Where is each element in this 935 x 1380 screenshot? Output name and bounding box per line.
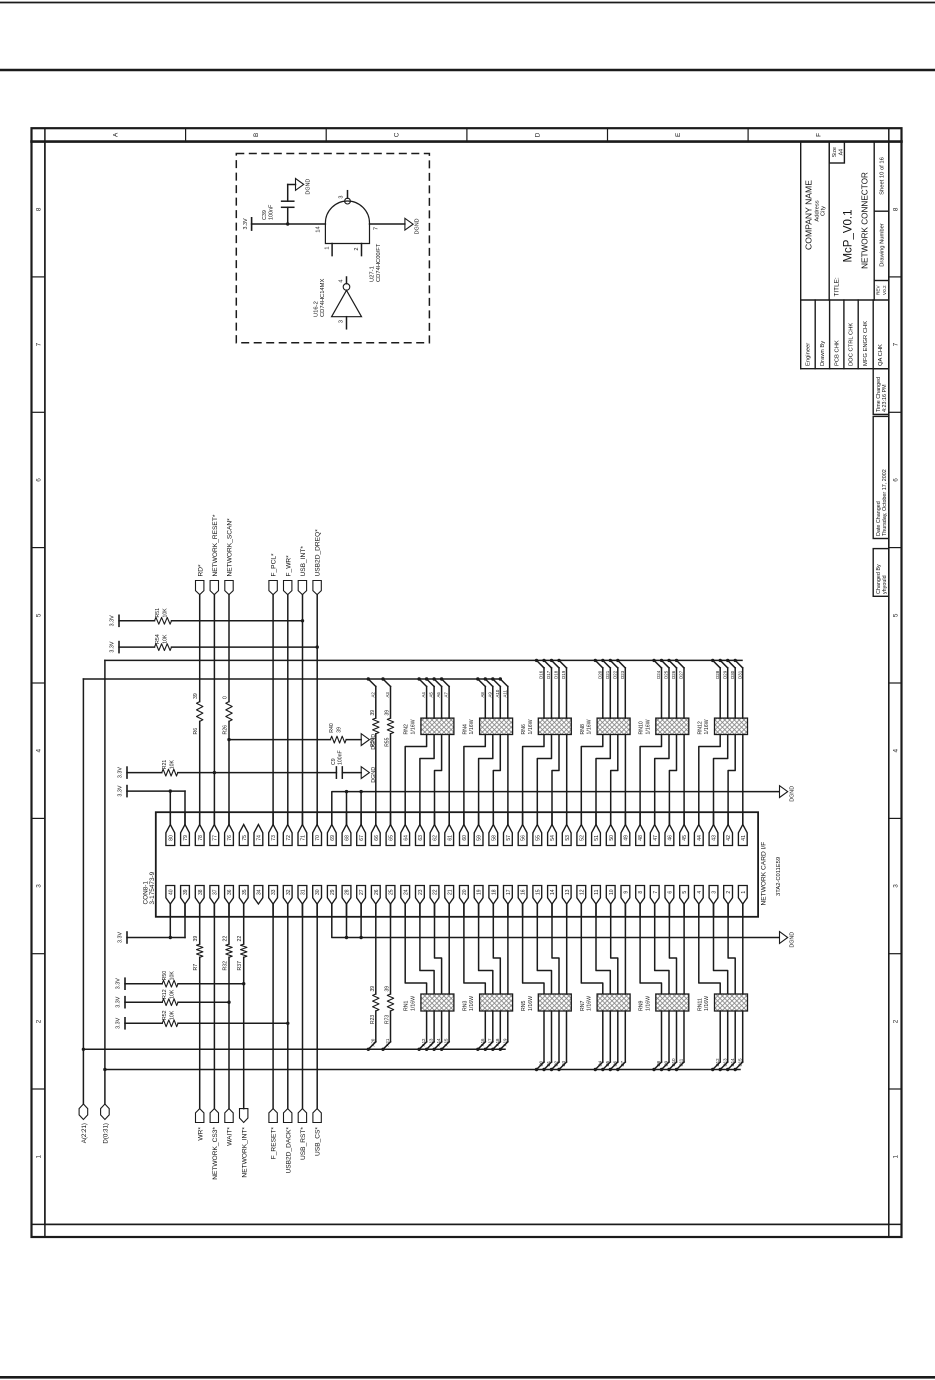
wire RN11 to bus tap D12 [719, 1011, 721, 1062]
wire RN7 to bus tap D6 [617, 1011, 619, 1062]
pin 52 [577, 825, 586, 846]
svg-text:64: 64 [403, 835, 409, 841]
wire bus tap D23 to RN8 [618, 660, 626, 668]
svg-text:C: C [394, 132, 401, 137]
frame strip right vertical extended [888, 128, 890, 1237]
wire RN7 input 1 from pin 12 [581, 904, 603, 994]
svg-text:19: 19 [477, 889, 483, 895]
wire RN3 input 2 from pin 19 [479, 904, 493, 994]
svg-text:RD*: RD* [197, 564, 204, 577]
ground DGND for U27 [405, 218, 413, 230]
ground DGND for C9 [361, 767, 369, 779]
svg-text:1/16W: 1/16W [587, 996, 593, 1011]
pin 35 [239, 886, 248, 905]
svg-text:54: 54 [550, 835, 556, 841]
svg-text:3.3V: 3.3V [115, 978, 121, 989]
svg-text:11: 11 [594, 889, 600, 894]
3.3V power symbol in dashed box [251, 218, 253, 230]
pin 30 [313, 886, 322, 905]
date changed box [873, 416, 889, 538]
svg-text:D3: D3 [561, 1060, 566, 1066]
pin 46 [665, 825, 674, 846]
wire WAIT* with resistor R32 [228, 957, 230, 1108]
svg-text:7: 7 [653, 891, 659, 894]
svg-text:3-175473-9: 3-175473-9 [149, 871, 156, 904]
svg-text:34: 34 [257, 889, 263, 895]
svg-text:D25: D25 [664, 670, 669, 679]
time changed box [873, 369, 889, 415]
svg-text:C9: C9 [331, 758, 337, 765]
resistor R37 [241, 944, 247, 957]
svg-text:A12: A12 [421, 1038, 426, 1046]
pin 32 [283, 886, 292, 905]
junction D6 [609, 1068, 612, 1071]
wire RN10 output 3 to pin 46 [669, 735, 676, 825]
pin 62 [430, 825, 439, 846]
junction R12 to WAIT [227, 1001, 230, 1004]
wire USB2D_DACK* to pin 32 [287, 904, 289, 1109]
bus D(0:31) upper horizontal [105, 659, 742, 661]
title block main dividing lines [801, 142, 889, 369]
pin 73 [269, 825, 278, 846]
svg-text:USB2D_DREQ*: USB2D_DREQ* [315, 529, 322, 577]
svg-text:58: 58 [491, 835, 497, 841]
svg-text:23: 23 [418, 889, 424, 895]
svg-text:5: 5 [892, 613, 899, 617]
resistor R12 with 3.3V [124, 997, 126, 1008]
wire RD* with resistor R6 [199, 595, 201, 702]
pin 25 [386, 886, 395, 905]
pin 66 [371, 825, 380, 846]
pin 10 [606, 886, 615, 905]
signal flag USB2D_DACK* [284, 1109, 292, 1123]
wire RN1 input 1 from pin 24 [405, 904, 426, 994]
pin 36 [225, 886, 234, 905]
resistor network RN7 [597, 994, 630, 1011]
pin 4 [694, 886, 703, 905]
junction D10 [667, 1068, 670, 1071]
svg-text:62: 62 [433, 835, 439, 841]
bus flag A(2:21) [79, 1104, 88, 1120]
svg-text:PCB CHK: PCB CHK [834, 340, 840, 366]
pin 72 [283, 825, 292, 846]
svg-text:DGND: DGND [789, 932, 795, 948]
wire U27 pin 7 to ground [370, 223, 405, 225]
svg-text:DGND: DGND [415, 218, 421, 234]
pin 74 [254, 825, 263, 846]
junction A10 [491, 677, 494, 680]
svg-text:D7: D7 [620, 1060, 625, 1066]
svg-text:COMPANY NAME: COMPANY NAME [803, 180, 813, 250]
resistor R21 with 3.3V [126, 767, 128, 778]
pin 26 [371, 886, 380, 905]
pin 7 [650, 886, 659, 905]
svg-text:3.3V: 3.3V [117, 767, 123, 778]
wire RN5 input 1 from pin 16 [523, 904, 544, 994]
ground DGND bottom rail [780, 932, 788, 944]
junction A14 [432, 1048, 435, 1051]
resistor R40 to ground [229, 739, 330, 741]
pin 70 [313, 825, 322, 846]
wire RN10 output 4 to pin 45 [683, 735, 685, 825]
svg-text:8: 8 [892, 207, 899, 211]
svg-text:A21: A21 [385, 1038, 390, 1046]
svg-text:8: 8 [35, 207, 42, 211]
wire RN8 output 4 to pin 49 [624, 735, 626, 825]
wire NETWORK_RESET* to pin 77 [213, 595, 215, 825]
svg-text:63: 63 [418, 835, 424, 841]
pin 15 [533, 886, 542, 905]
junction D26 [667, 659, 670, 662]
column tick marks top strip [186, 128, 749, 141]
ground rail bottom [332, 904, 780, 938]
pin 79 [181, 825, 190, 846]
svg-text:A15: A15 [444, 1038, 449, 1046]
svg-text:D2: D2 [554, 1060, 559, 1066]
svg-text:75: 75 [242, 835, 248, 841]
bus D(0:31) lower horizontal [105, 1069, 740, 1071]
wire bus tap D20 to RN8 [595, 660, 603, 668]
wire RN2 output 4 to pin 61 [448, 735, 450, 825]
svg-text:6: 6 [892, 478, 899, 482]
svg-text:4: 4 [35, 748, 42, 752]
svg-text:A7: A7 [444, 692, 449, 698]
junction A8 [476, 677, 479, 680]
svg-text:Date Changed: Date Changed [876, 501, 882, 536]
svg-text:Thursday, October 17, 2002: Thursday, October 17, 2002 [882, 469, 888, 536]
pin 17 [504, 886, 513, 905]
wire RN6 output 1 to pin 56 [523, 735, 544, 825]
pin 14 [548, 886, 557, 905]
svg-text:3.3V: 3.3V [109, 641, 115, 652]
svg-text:R59: R59 [370, 737, 376, 746]
signal flag F_WR* [284, 581, 292, 595]
row tick marks right strip [889, 277, 902, 1089]
pin 12 [577, 886, 586, 905]
op-amp U27-1 NAND gate body [325, 201, 369, 244]
pin 67 [357, 825, 366, 846]
svg-text:B: B [253, 133, 260, 137]
resistor R73 [387, 994, 393, 1011]
svg-text:R7: R7 [193, 964, 199, 971]
resistor R55 [387, 718, 393, 734]
svg-text:D10: D10 [671, 1058, 676, 1067]
svg-text:4:23:16 PM: 4:23:16 PM [882, 384, 888, 412]
svg-text:27: 27 [359, 889, 365, 895]
U16-2 output stub pin 4 [346, 277, 348, 284]
wire USB_RST* to pin 31 [302, 904, 304, 1109]
ground DGND for C39 [296, 179, 304, 191]
junction D9 [660, 1068, 663, 1071]
pin 59 [474, 825, 483, 846]
wire RN12 output 3 to pin 42 [728, 735, 735, 825]
svg-text:12: 12 [579, 889, 585, 895]
row numbers 8-1 right strip [892, 207, 899, 1158]
svg-text:D: D [534, 132, 541, 137]
svg-text:USB_CS*: USB_CS* [315, 1127, 322, 1156]
junction D11 [675, 1068, 678, 1071]
svg-text:6: 6 [668, 891, 674, 894]
resistor R59 [373, 718, 379, 734]
svg-text:Drawing Number: Drawing Number [880, 223, 886, 267]
junction R54 to USB2D_DREQ [316, 645, 319, 648]
pin 31 [298, 886, 307, 905]
svg-text:R73: R73 [385, 1015, 391, 1024]
svg-text:RN8: RN8 [580, 724, 586, 734]
wire RN12 output 1 to pin 44 [699, 735, 720, 825]
svg-text:D30: D30 [730, 670, 735, 679]
junction D3 [557, 1068, 560, 1071]
wire bus tap A5 to RN2 [427, 679, 435, 687]
svg-text:80: 80 [168, 835, 174, 841]
junction A7 [440, 677, 443, 680]
svg-text:3: 3 [35, 884, 42, 888]
svg-text:4: 4 [892, 748, 899, 752]
resistor network RN6 [538, 718, 571, 734]
junction A11 [499, 677, 502, 680]
wire RN7 to bus tap D7 [624, 1011, 626, 1062]
svg-text:1/16W: 1/16W [469, 719, 475, 734]
wire bus tap D27 to RN10 [677, 660, 685, 668]
wire RN6 output 4 to pin 53 [566, 735, 568, 825]
svg-text:A(2:21): A(2:21) [81, 1123, 88, 1143]
signal flag F_PCL* [269, 581, 277, 595]
svg-text:A6: A6 [436, 692, 441, 698]
wire RN9 to bus tap D10 [676, 1011, 678, 1062]
svg-text:5: 5 [682, 891, 688, 894]
pin 55 [533, 825, 542, 846]
wire RN7 input 3 from pin 10 [611, 904, 618, 994]
signal flag USB2D_DREQ* [313, 581, 321, 595]
svg-text:Engineer: Engineer [805, 343, 811, 366]
wire F_PCL* to pin 73 [272, 595, 274, 825]
wire bus tap A7 to RN2 [442, 679, 450, 687]
wire RN10 output 1 to pin 48 [640, 735, 661, 825]
svg-text:67: 67 [359, 835, 365, 841]
svg-text:D20: D20 [597, 670, 602, 679]
junction D bus lower [103, 1068, 106, 1071]
U27-1 input stub pin 1 [331, 244, 333, 256]
wire RN8 output 1 to pin 52 [581, 735, 603, 825]
svg-text:D23: D23 [620, 670, 625, 679]
svg-text:CD74HC14MX: CD74HC14MX [320, 279, 326, 317]
resistor network RN11 [715, 994, 748, 1011]
signal flag NETWORK_INT* [240, 1109, 248, 1123]
junction 3.3V pin 40 [169, 936, 172, 939]
svg-text:DGND: DGND [789, 786, 795, 802]
wire RN8 output 2 to pin 51 [596, 735, 610, 825]
pin 76 [225, 825, 234, 846]
junction D2 [550, 1068, 553, 1071]
wire RN2 output 2 to pin 63 [420, 735, 434, 825]
junction D13 [719, 1068, 722, 1071]
svg-text:29: 29 [330, 889, 336, 895]
wire bus tap D19 to RN6 [559, 660, 567, 668]
pin 57 [504, 825, 513, 846]
svg-text:1/16W: 1/16W [587, 719, 593, 734]
svg-text:F_PCL*: F_PCL* [271, 553, 278, 577]
resistor R6 [197, 702, 203, 722]
junction D4 [594, 1068, 597, 1071]
svg-text:Size: Size [832, 147, 838, 157]
svg-text:52: 52 [579, 835, 585, 841]
pin 43 [709, 825, 718, 846]
svg-text:3.3V: 3.3V [115, 996, 121, 1007]
resistor network RN3 [480, 994, 513, 1011]
wire RN10 output 2 to pin 47 [655, 735, 669, 825]
wire bus tap D24 to RN10 [654, 660, 662, 668]
svg-text:R37: R37 [237, 961, 243, 971]
wire RN9 input 1 from pin 8 [640, 904, 661, 994]
title block size box [829, 142, 844, 163]
pin 39 [181, 886, 190, 905]
svg-text:McP_V0.1: McP_V0.1 [842, 209, 854, 262]
wire RN1 to bus tap A13 [433, 1011, 435, 1042]
pin 18 [489, 886, 498, 905]
junction D31 [734, 659, 737, 662]
wire RN3 to bus tap A16 [484, 1011, 486, 1042]
svg-text:10K: 10K [169, 989, 175, 999]
svg-text:1/16W: 1/16W [528, 996, 534, 1011]
svg-text:68: 68 [345, 835, 351, 841]
junction A12 [417, 1048, 420, 1051]
wire bus tap D21 to RN8 [603, 660, 611, 668]
svg-text:D8: D8 [656, 1060, 661, 1066]
signal flag F_RESET* [269, 1109, 277, 1123]
svg-text:65: 65 [389, 835, 395, 841]
svg-text:6: 6 [35, 478, 42, 482]
svg-text:2: 2 [354, 247, 360, 250]
junction A4 [417, 677, 420, 680]
wire RN2 output 3 to pin 62 [435, 735, 442, 825]
junction D14 [726, 1068, 729, 1071]
svg-text:D31: D31 [737, 670, 742, 679]
pin 77 [210, 825, 219, 846]
wire bus tap D16 to RN6 [537, 660, 545, 668]
ground DGND top rail [780, 786, 788, 798]
svg-text:15: 15 [535, 889, 541, 895]
junction A20 tap [367, 1048, 370, 1051]
svg-text:38: 38 [198, 889, 204, 895]
pin 58 [489, 825, 498, 846]
svg-text:RN4: RN4 [462, 724, 468, 734]
svg-text:55: 55 [535, 835, 541, 841]
resistor network RN9 [656, 994, 689, 1011]
junction ground pin 28 [345, 936, 348, 939]
svg-text:25: 25 [389, 889, 395, 895]
svg-text:14: 14 [315, 226, 321, 232]
svg-text:51: 51 [594, 835, 600, 841]
svg-text:Drawn By: Drawn By [820, 341, 826, 366]
pin 64 [401, 825, 410, 846]
column letters A-F top strip [112, 132, 822, 137]
junction D27 [675, 659, 678, 662]
resistor R51 with 3.3V [118, 615, 120, 626]
row tick marks left strip [32, 277, 45, 1089]
pin 20 [460, 886, 469, 905]
svg-text:18: 18 [491, 889, 497, 895]
svg-text:35: 35 [242, 889, 248, 895]
svg-text:47: 47 [653, 835, 659, 841]
svg-text:A: A [112, 132, 119, 137]
wire F_RESET* to pin 33 [272, 904, 274, 1109]
svg-text:A2: A2 [370, 692, 375, 698]
frame inner top thick line [32, 140, 902, 143]
wire RN12 output 4 to pin 41 [742, 735, 744, 825]
svg-text:Time Changed: Time Changed [876, 377, 882, 412]
junction D23 [616, 659, 619, 662]
svg-text:A4: A4 [421, 692, 426, 698]
wire RN11 input 2 from pin 3 [714, 904, 728, 994]
svg-text:D5: D5 [605, 1060, 610, 1066]
svg-text:0: 0 [223, 696, 229, 699]
svg-text:61: 61 [447, 835, 453, 841]
wire RN11 input 4 from pin 1 [742, 904, 744, 994]
junction A13 [425, 1048, 428, 1051]
junction A17 [484, 1048, 487, 1051]
svg-text:R55: R55 [385, 737, 391, 746]
svg-text:1/16W: 1/16W [528, 719, 534, 734]
wire RN7 to bus tap D4 [602, 1011, 604, 1062]
wire bus tap A10 to RN4 [493, 679, 501, 687]
svg-text:39: 39 [193, 936, 199, 942]
svg-text:U16-2: U16-2 [314, 301, 320, 317]
svg-text:D0: D0 [539, 1060, 544, 1066]
bus D(0:31) vertical [104, 660, 106, 1104]
svg-text:D29: D29 [722, 670, 727, 679]
wire bus tap D22 to RN8 [610, 660, 618, 668]
svg-text:1/16W: 1/16W [645, 719, 651, 734]
svg-text:3.3V: 3.3V [117, 785, 123, 796]
wire bus tap D31 to RN12 [735, 660, 743, 668]
svg-text:DOC CTRL CHK: DOC CTRL CHK [849, 323, 855, 366]
svg-text:A17: A17 [487, 1038, 492, 1046]
wire NETWORK_INT* with resistor R37 [243, 957, 245, 1108]
svg-text:D6: D6 [612, 1060, 617, 1066]
svg-text:7: 7 [35, 342, 42, 346]
svg-text:10: 10 [609, 889, 615, 895]
junction D7 [616, 1068, 619, 1071]
svg-text:REV: REV [876, 285, 881, 295]
svg-text:21: 21 [447, 889, 453, 895]
pin 27 [357, 886, 366, 905]
junction D16 [535, 659, 538, 662]
title block approval row lines [801, 300, 889, 369]
svg-text:NETWORK_INT*: NETWORK_INT* [241, 1127, 248, 1178]
svg-text:4: 4 [339, 279, 345, 282]
junction D28 [711, 659, 714, 662]
svg-text:RN10: RN10 [639, 721, 645, 734]
junction D20 [594, 659, 597, 662]
wire RN3 input 4 from pin 17 [507, 904, 509, 994]
svg-text:Changed By: Changed By [876, 564, 882, 594]
svg-text:48: 48 [638, 835, 644, 841]
svg-text:10K: 10K [162, 608, 168, 618]
svg-text:36: 36 [227, 889, 233, 895]
svg-text:10K: 10K [169, 1010, 175, 1020]
svg-text:R54: R54 [155, 634, 161, 644]
wire RN4 output 1 to pin 60 [464, 735, 485, 825]
resistor network RN4 [480, 718, 513, 734]
junction A6 [432, 677, 435, 680]
svg-text:RN11: RN11 [697, 998, 703, 1011]
svg-text:2: 2 [35, 1019, 42, 1023]
pin 8 [636, 886, 645, 905]
pin 11 [592, 886, 601, 905]
svg-text:1: 1 [741, 891, 747, 894]
svg-text:D11: D11 [679, 1058, 684, 1066]
pin 22 [430, 886, 439, 905]
